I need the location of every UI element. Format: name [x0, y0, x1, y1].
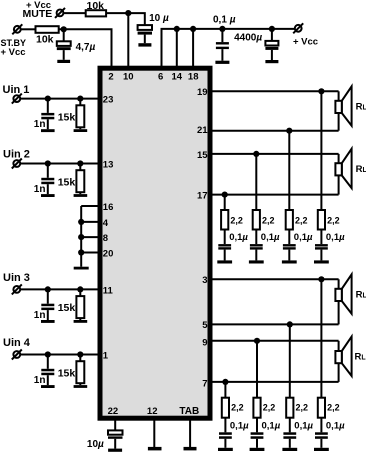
svg-text:1n: 1n [34, 184, 46, 195]
ground (TAB) [184, 447, 197, 451]
wire pin 22 stub [114, 418, 116, 430]
resistor 15k (input 4) [76, 355, 84, 386]
svg-text:15k: 15k [58, 302, 76, 314]
capacitor 1n (input 2) [41, 164, 54, 195]
svg-text:Uin 3: Uin 3 [3, 272, 30, 284]
resistor 2,2 (snubber 1) [221, 210, 228, 230]
svg-text:0,1 µ: 0,1 µ [213, 15, 236, 26]
node pin21 snubber junction [286, 128, 292, 134]
ground (under 15k input 2) [74, 194, 88, 197]
svg-text:11: 11 [103, 285, 114, 296]
wire pin 10 stub [127, 13, 129, 68]
connector Uin 2 [12, 159, 22, 169]
svg-text:19: 19 [197, 87, 208, 98]
connector ST.BY input [12, 24, 22, 34]
capacitor 0,1u (supply) [216, 29, 229, 61]
svg-text:2,2: 2,2 [262, 216, 275, 226]
wire MUTE connector to R MUTE [64, 12, 86, 14]
resistor 2,2 (snubber 7) [286, 398, 293, 418]
svg-text:23: 23 [103, 95, 114, 106]
wire R ST.BY to pin 2 [59, 29, 112, 68]
wire snubber drop pin7 [224, 382, 226, 398]
svg-text:1n: 1n [34, 310, 46, 321]
svg-text:10µ: 10µ [87, 439, 104, 450]
node pin17 snubber junction [222, 192, 228, 198]
svg-text:15k: 15k [58, 176, 76, 188]
svg-text:2,2: 2,2 [263, 403, 276, 413]
svg-text:0,1µ: 0,1µ [294, 232, 313, 243]
svg-text:7: 7 [202, 378, 207, 389]
svg-text:4: 4 [103, 218, 109, 229]
ground (under 16-4-8-20) [74, 267, 89, 270]
connector MUTE input [55, 8, 65, 18]
ground (under 15k input 3) [74, 320, 88, 323]
node pin20 junction [78, 249, 84, 255]
svg-text:+ Vcc: + Vcc [293, 37, 318, 48]
ground (under 15k input 1) [74, 129, 88, 132]
wire Uin1 to pin 23 [20, 98, 100, 100]
speaker RL 2 [335, 149, 351, 195]
wire supply bus to pins 6 14 18 [162, 29, 295, 68]
svg-text:15: 15 [197, 150, 208, 161]
node pin18 junction [190, 26, 196, 32]
wire common vertical 16-4-8-20 [80, 206, 82, 267]
wire snubber drop pin17 [224, 195, 226, 211]
svg-text:2,2: 2,2 [327, 403, 340, 413]
node pin15 snubber junction [253, 151, 259, 157]
capacitor 1n (input 3) [41, 289, 54, 320]
ground (under C 4400u) [265, 60, 278, 63]
node pin7 snubber junction [222, 379, 228, 385]
capacitor 0,1u (snubber 2) [250, 230, 263, 261]
node Uin2 res junction [77, 160, 83, 166]
ground (snubber 1) [217, 260, 232, 263]
node MUTE junction [125, 10, 131, 16]
node pin14 junction [174, 26, 180, 32]
node Uin1 cap junction [45, 96, 51, 102]
wire pin 8 stub [81, 236, 100, 238]
wire pin 14 stub [176, 29, 178, 68]
wire Uin2 to pin 13 [20, 163, 100, 165]
wire TAB stub [189, 418, 191, 447]
svg-text:2,2: 2,2 [230, 216, 243, 226]
connector Uin 1 [12, 94, 22, 104]
resistor 10k (ST.BY) [36, 26, 59, 33]
svg-text:Uin 2: Uin 2 [3, 149, 30, 161]
capacitor 0,1u (snubber 8) [315, 418, 328, 448]
wire ST.BY connector to R [21, 28, 36, 30]
svg-text:2,2: 2,2 [296, 403, 309, 413]
svg-text:0,1µ: 0,1µ [326, 421, 345, 432]
wire Uin3 to pin 11 [20, 288, 100, 290]
ground (snubber 4) [314, 260, 329, 263]
svg-text:1: 1 [103, 351, 109, 362]
node Uin3 res junction [77, 286, 83, 292]
capacitor 10u (top) [138, 25, 152, 43]
ground (under C 10u top) [138, 43, 151, 46]
wire snubber drop pin9 [256, 341, 258, 398]
connector Uin 4 [12, 350, 22, 360]
svg-text:15k: 15k [58, 367, 76, 379]
ground (under C 4,7u) [57, 60, 70, 63]
wire snubber drop pin5 [289, 324, 291, 398]
svg-text:6: 6 [158, 72, 163, 83]
speaker RL 4 [335, 337, 351, 382]
wire snubber drop pin15 [255, 154, 257, 211]
wire pin 7 output [210, 381, 339, 383]
svg-text:0,1µ: 0,1µ [294, 421, 313, 432]
op-amp U1 IC body [100, 68, 210, 418]
resistor 2,2 (snubber 4) [318, 210, 325, 230]
svg-text:0,1µ: 0,1µ [229, 232, 248, 243]
speaker RL 1 [335, 86, 351, 130]
resistor 2,2 (snubber 2) [253, 210, 260, 230]
node pin5 snubber junction [287, 321, 293, 327]
svg-text:17: 17 [197, 191, 208, 202]
svg-text:1n: 1n [34, 119, 46, 130]
wire pin 4 stub [81, 221, 100, 223]
svg-text:16: 16 [103, 202, 114, 213]
ground (snubber 2) [249, 260, 264, 263]
ground (snubber 6) [250, 448, 265, 451]
svg-text:MUTE: MUTE [23, 8, 53, 20]
capacitor 0,1u (snubber 3) [283, 230, 296, 261]
capacitor 0,1u (snubber 5) [219, 418, 232, 448]
ground (under 15k input 4) [74, 385, 88, 388]
svg-text:0,1µ: 0,1µ [230, 421, 249, 432]
wire R MUTE to pin10 node [106, 12, 128, 14]
resistor 15k (input 3) [76, 289, 84, 320]
svg-text:1n: 1n [34, 375, 46, 386]
wire pin 21 output [210, 130, 339, 132]
ground (under 1n input 1) [41, 129, 55, 132]
ground (under supply 0,1u) [215, 61, 229, 64]
resistor 15k (input 2) [76, 164, 84, 195]
svg-text:0,1µ: 0,1µ [261, 232, 280, 243]
svg-text:10k: 10k [87, 0, 105, 12]
resistor 2,2 (snubber 8) [318, 398, 325, 418]
ground (snubber 5) [218, 448, 233, 451]
capacitor 0,1u (snubber 1) [218, 230, 231, 261]
svg-text:2,2: 2,2 [295, 216, 308, 226]
svg-text:10k: 10k [36, 34, 54, 46]
svg-text:12: 12 [147, 406, 158, 417]
capacitor 4400u [265, 29, 278, 60]
svg-text:10: 10 [123, 72, 134, 83]
resistor 10k (MUTE) [86, 10, 106, 16]
wire pin 3 output [210, 278, 339, 280]
capacitor 1n (input 1) [41, 99, 54, 130]
svg-text:3: 3 [202, 275, 207, 286]
wire pin 5 output [210, 323, 339, 325]
capacitor C 4,7u [57, 29, 71, 60]
node Uin2 cap junction [45, 160, 51, 166]
node ST.BY junction [61, 26, 67, 32]
connector Uin 3 [12, 284, 22, 294]
svg-text:2: 2 [108, 72, 113, 83]
svg-text:+ Vcc: + Vcc [1, 47, 26, 58]
wire pin 9 output [210, 340, 339, 342]
resistor 2,2 (snubber 5) [222, 398, 229, 418]
node pin8 junction [78, 234, 84, 240]
svg-text:Uin 1: Uin 1 [3, 84, 30, 96]
svg-text:4,7µ: 4,7µ [76, 42, 96, 53]
svg-text:TAB: TAB [179, 406, 199, 417]
node pin9 snubber junction [254, 338, 260, 344]
wire pin 17 output [210, 194, 339, 196]
svg-text:0,1µ: 0,1µ [326, 232, 345, 243]
ground (snubber 3) [282, 260, 297, 263]
node Uin1 res junction [77, 96, 83, 102]
ground (pin 12) [148, 447, 162, 451]
svg-text:14: 14 [172, 72, 183, 83]
svg-text:0,1µ: 0,1µ [262, 421, 281, 432]
svg-text:21: 21 [197, 125, 208, 136]
wire snubber drop pin19 [320, 91, 322, 210]
capacitor 0,1u (snubber 4) [315, 230, 328, 261]
svg-text:2,2: 2,2 [327, 216, 340, 226]
wire Uin4 to pin 1 [20, 354, 100, 356]
node Uin3 cap junction [45, 286, 51, 292]
capacitor 0,1u (snubber 6) [251, 418, 264, 448]
wire pin 12 stub [153, 418, 155, 447]
node C 4400u junction [269, 26, 275, 32]
capacitor 1n (input 4) [41, 355, 54, 386]
ground (under 1n input 2) [41, 194, 55, 197]
capacitor 10u (pin 22) [108, 430, 123, 448]
svg-text:15k: 15k [58, 111, 76, 123]
node C 0,1u junction [219, 26, 225, 32]
node Uin4 cap junction [45, 351, 51, 357]
svg-text:8: 8 [103, 233, 108, 244]
svg-text:13: 13 [103, 160, 114, 171]
resistor 15k (input 1) [76, 99, 84, 130]
svg-text:2,2: 2,2 [231, 403, 244, 413]
resistor 2,2 (snubber 6) [253, 398, 260, 418]
svg-text:4400µ: 4400µ [234, 33, 262, 44]
wire pin 16 stub [81, 205, 100, 207]
svg-text:18: 18 [188, 72, 199, 83]
ground (snubber 8) [314, 448, 329, 451]
speaker RL 3 [335, 274, 351, 324]
node Uin4 res junction [77, 351, 83, 357]
node pin19 snubber junction [318, 88, 324, 94]
ground (under 10u pin 22) [108, 449, 122, 452]
ground (snubber 7) [282, 448, 297, 451]
ground (under 1n input 3) [41, 320, 55, 323]
capacitor 0,1u (snubber 7) [283, 418, 296, 448]
node pin3 snubber junction [318, 276, 324, 282]
ground (under 1n input 4) [41, 385, 55, 388]
svg-text:22: 22 [108, 406, 119, 417]
wire MUTE node to C 10u [128, 13, 145, 25]
svg-text:20: 20 [103, 249, 114, 260]
wire pin 15 output [210, 153, 339, 155]
svg-text:Uin 4: Uin 4 [3, 337, 31, 349]
connector +Vcc supply [293, 23, 303, 33]
svg-text:9: 9 [202, 337, 207, 348]
node pin4 junction [78, 219, 84, 225]
wire snubber drop pin3 [320, 279, 322, 398]
wire pin 19 output [210, 90, 339, 92]
wire snubber drop pin21 [288, 131, 290, 211]
svg-text:5: 5 [202, 320, 208, 331]
resistor 2,2 (snubber 3) [286, 210, 293, 230]
wire pin 18 stub [192, 29, 194, 68]
svg-text:10 µ: 10 µ [149, 13, 169, 24]
wire pin 20 stub [81, 252, 100, 254]
